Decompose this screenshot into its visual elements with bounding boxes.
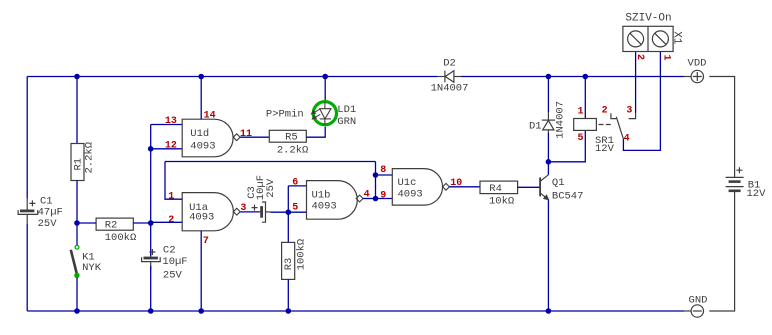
svg-text:1: 1 [168,192,174,203]
switch K1 [71,245,79,277]
junction U1d pin12 [148,146,154,152]
resistor R4 [480,181,518,194]
resistor R3 [282,242,295,279]
svg-text:VDD: VDD [688,58,707,70]
wire R1-R2 [77,222,96,224]
svg-text:C2: C2 [163,245,176,257]
wire coil top [584,77,586,119]
svg-text:14: 14 [204,111,216,122]
wire feedback vertical [375,162,377,199]
svg-text:BC547: BC547 [552,190,584,202]
svg-text:2: 2 [634,54,645,60]
wire R4 to Q1 [518,186,540,188]
capacitor C1 [18,199,38,224]
led LD1 [313,102,336,125]
junction U1a pin7 rail [198,308,204,314]
svg-text:10µF: 10µF [162,256,187,268]
svg-text:2: 2 [602,106,608,117]
wire R1 top [76,77,78,144]
svg-text:47µF: 47µF [38,207,63,219]
wire collector to coil [548,130,585,161]
wire battery to GND [709,192,734,311]
C3 plus sign [252,205,258,211]
U1c output bubble [443,183,450,190]
wire R3 top [287,212,289,242]
nand gate U1b [307,181,358,220]
svg-text:1N4007: 1N4007 [431,82,469,94]
wire U1b pin5 [288,211,306,213]
ground symbol GND [684,305,703,317]
junction U1b4/U1c9 [373,196,379,202]
U1b output bubble [356,195,363,202]
relay SR1 coil [574,119,597,131]
svg-text:X1: X1 [670,31,682,45]
LED arrows [312,109,321,119]
svg-text:3: 3 [626,106,632,117]
svg-text:2.2kΩ: 2.2kΩ [84,142,96,174]
capacitor C3 [260,202,271,222]
U1a output bubble [233,208,240,215]
SR1 contact pin3 [629,113,636,118]
svg-text:U1d: U1d [190,128,209,140]
SR1 contact pin2 [611,113,616,118]
junction Q1 emitter rail [546,308,552,314]
svg-text:NYK: NYK [82,262,102,274]
svg-text:12V: 12V [747,188,767,200]
junction U1c pin8 [373,172,379,178]
svg-text:25V: 25V [265,178,277,198]
nand gate U1c [392,169,442,206]
wire C3 to U1b [270,211,288,213]
svg-text:5: 5 [577,133,583,144]
junction LED rail [322,74,328,80]
svg-text:4: 4 [624,133,630,144]
svg-text:Q1: Q1 [552,177,565,189]
svg-text:LD1: LD1 [337,104,356,116]
svg-text:SZIV-On: SZIV-On [625,12,671,24]
svg-text:1: 1 [577,107,583,118]
junction D1 rail [546,74,552,80]
svg-text:25V: 25V [163,270,183,282]
svg-text:4093: 4093 [190,141,215,153]
wire U1d inputs vertical [150,125,152,224]
wire U1b output [363,198,376,200]
U1d output bubble [233,134,240,141]
wire C2 top [150,223,152,257]
junction R1/R2/K1 [74,220,80,226]
svg-text:2.2kΩ: 2.2kΩ [277,144,309,156]
wire left rail [26,77,28,199]
svg-text:2: 2 [168,215,174,226]
terminal block X1 [623,26,673,51]
svg-text:U1c: U1c [398,177,417,189]
power symbol VDD [684,70,703,82]
svg-text:4093: 4093 [398,189,423,201]
C2 plus sign [149,249,155,255]
wire left rail lower [26,224,28,311]
svg-text:13: 13 [165,116,177,127]
svg-text:6: 6 [292,178,298,189]
junction R1 top rail [74,74,80,80]
svg-text:1N4007: 1N4007 [554,101,566,139]
junction R2/C2/U1a2 [148,220,154,226]
wire U1a pin1 [165,162,182,200]
wire U1b pin6 [288,185,306,187]
nand gate U1a [182,193,233,231]
wire K1 top [76,223,78,245]
capacitor C2 [142,257,161,270]
nand gate U1d [182,119,233,157]
wire R2 right [133,222,150,224]
wire top rail [27,76,437,78]
svg-text:4093: 4093 [312,201,337,213]
wire D1 bottom [547,133,549,162]
wire U1a output [240,211,259,213]
svg-text:100kΩ: 100kΩ [296,239,308,271]
svg-text:D1: D1 [529,120,542,132]
svg-text:P>Pmin: P>Pmin [266,109,304,121]
wire U1c output [449,186,480,188]
SR1 link dashes [599,124,611,126]
wire bottom rail [27,310,684,312]
svg-text:9: 9 [380,191,386,202]
wire contact pin3 to X1 [635,52,637,114]
wire K1 bottom [76,277,78,311]
junction C3/U1b5/R3 [286,209,292,215]
wire top rail right of D2 [461,76,684,78]
diode D2 [437,71,461,83]
wire U1d pin13 [151,124,183,126]
svg-text:7: 7 [203,236,209,247]
svg-text:10kΩ: 10kΩ [489,195,514,207]
wire contact pin4 [623,52,660,151]
wire C2 bottom [150,266,152,311]
resistor R1 [71,144,84,181]
svg-text:D2: D2 [443,57,456,69]
svg-text:5: 5 [292,203,298,214]
wire U1a pin7 [200,231,202,311]
transistor Q1 [540,175,548,200]
junction D1/Q1/SR1 [546,159,552,165]
svg-text:GRN: GRN [337,116,356,128]
wire R5 to LED [306,127,325,137]
wire U1c pin8 [376,174,393,176]
junction coil rail [583,74,589,80]
battery B1 [726,177,744,190]
svg-text:12V: 12V [595,143,615,155]
SR1 contact blade [616,117,623,139]
svg-text:4093: 4093 [189,212,214,224]
svg-text:R3: R3 [283,258,295,271]
resistor R5 [269,130,306,142]
wire R3 bottom [287,279,289,311]
wire Q1 collector [547,162,549,175]
wire R1 bottom [76,181,78,224]
wire VDD to battery [709,77,734,178]
resistor R2 [96,218,133,230]
svg-text:R4: R4 [489,183,502,195]
svg-text:8: 8 [380,165,386,176]
svg-text:11: 11 [240,129,252,140]
C1 plus sign [29,200,35,206]
svg-text:R5: R5 [285,132,298,144]
junction U1d pin14 rail [198,74,204,80]
B1 plus sign [736,167,742,173]
wire feedback [165,161,376,163]
svg-text:R2: R2 [105,220,118,232]
svg-text:12: 12 [165,141,177,152]
wire U1a pin2 [151,221,183,223]
svg-text:25V: 25V [38,218,58,230]
svg-text:GND: GND [689,295,708,307]
wire Q1 emitter [547,200,549,311]
svg-text:1: 1 [660,54,671,60]
wire D1 top [547,77,549,113]
junction C2 bottom rail [148,308,154,314]
wire U1d pin11 output [240,136,269,138]
wire U1c pin9 [376,198,393,200]
diode D1 [542,112,555,133]
junction K1 bottom rail [74,308,80,314]
wire U1d pin14 [200,77,202,120]
wire U1d pin12 [151,148,183,150]
svg-text:100kΩ: 100kΩ [105,232,137,244]
wire LED top [324,77,326,101]
junction R3 bottom rail [286,308,292,314]
wire U1b pin6 vertical [287,186,289,212]
